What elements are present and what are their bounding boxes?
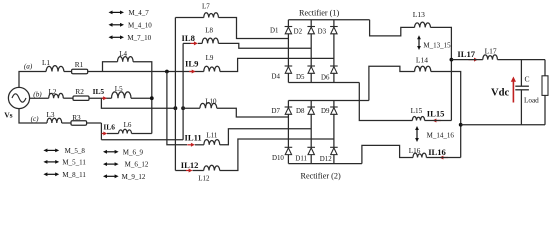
AC source Vs — [8, 87, 29, 108]
diode D6 — [330, 65, 338, 67]
wire L9 to rect1 leg3 — [220, 58, 334, 71]
coupling arrow M_5_11 — [46, 161, 56, 163]
inductor L2 — [49, 93, 64, 98]
coupling arrow M_4_10 — [112, 24, 122, 26]
svg-text:IL5: IL5 — [93, 87, 105, 96]
svg-text:L9: L9 — [206, 54, 214, 62]
wire rect2 minus to L16 — [362, 145, 413, 163]
wire L12 to rect2 leg3 — [220, 139, 334, 171]
svg-text:D2: D2 — [294, 28, 303, 35]
arrow IL9 — [189, 71, 193, 73]
diode D10 — [285, 146, 293, 148]
node V3 top dot — [174, 106, 178, 110]
coupling arrow M_13_15 — [418, 38, 420, 47]
svg-text:Load: Load — [524, 97, 539, 105]
wire phase b start — [30, 97, 49, 99]
svg-text:D4: D4 — [272, 73, 281, 80]
inductor L7 — [204, 13, 219, 18]
capacitor C — [520, 60, 522, 87]
wire L16 to node N — [426, 157, 460, 159]
wire phase a riser — [19, 72, 46, 88]
svg-text:L16: L16 — [409, 147, 421, 155]
svg-text:D8: D8 — [296, 108, 305, 115]
resistor R2 — [73, 96, 89, 100]
node V4 dot — [181, 106, 185, 110]
wire L10 to rect2 leg1 — [217, 108, 289, 117]
arrow IL17 — [469, 59, 475, 61]
wire L4 to V1 — [133, 62, 152, 134]
svg-text:L8: L8 — [205, 27, 213, 35]
wire phase c riser — [19, 109, 47, 123]
wire rect1 minus to L15 — [359, 83, 412, 121]
svg-text:L1: L1 — [42, 59, 50, 67]
wire L12 lead — [193, 170, 204, 172]
resistor R3 — [71, 121, 87, 125]
wire L7 to rect1 leg1 — [218, 18, 288, 39]
rect1 leg1 wire — [287, 20, 289, 83]
inductor L3 — [47, 118, 62, 123]
arrow IL8 — [191, 42, 195, 44]
svg-text:L5: L5 — [115, 85, 123, 93]
svg-text:R2: R2 — [75, 87, 84, 96]
rect2 leg2 wire — [310, 101, 312, 164]
svg-text:R1: R1 — [75, 60, 84, 69]
arrow IL5 — [102, 97, 105, 99]
arrow IL16 — [443, 157, 449, 159]
diode D8 — [307, 106, 315, 108]
rect2 bottom bus — [288, 163, 362, 165]
svg-text:L15: L15 — [411, 107, 423, 115]
svg-text:(c): (c) — [31, 115, 40, 123]
wire L8 to rect1 leg2 — [218, 43, 311, 48]
inductor L15 — [412, 116, 424, 120]
svg-text:L13: L13 — [413, 10, 425, 19]
resistor R1 — [72, 69, 88, 73]
wire L10 line — [183, 107, 200, 109]
wire phase c down — [100, 123, 102, 140]
inductor L13 — [415, 22, 431, 27]
rect2 top bus — [288, 100, 369, 102]
svg-text:M_8_11: M_8_11 — [62, 171, 86, 179]
svg-text:L6: L6 — [124, 121, 132, 129]
inductor L8 — [202, 38, 218, 43]
svg-text:M_5_8: M_5_8 — [65, 147, 86, 155]
wire top rail — [497, 59, 545, 61]
svg-text:M_13_15: M_13_15 — [423, 42, 451, 50]
svg-text:Rectifier (1): Rectifier (1) — [299, 9, 340, 18]
svg-text:Vdc: Vdc — [491, 87, 510, 98]
wire L6 to V1 — [132, 133, 152, 135]
wire phase c to corner — [87, 122, 102, 124]
svg-text:L7: L7 — [202, 2, 210, 10]
svg-text:D6: D6 — [321, 75, 330, 82]
diode D5 — [307, 65, 315, 67]
svg-text:IL8: IL8 — [182, 33, 196, 43]
svg-text:L2: L2 — [49, 88, 57, 96]
inductor L5 — [112, 92, 132, 98]
svg-text:Vs: Vs — [4, 110, 12, 119]
svg-text:M_4_7: M_4_7 — [129, 9, 150, 17]
wire L11 to rect2 leg2 — [220, 129, 312, 145]
rect1 leg2 wire — [310, 20, 312, 83]
coupling arrow M_6_12 — [106, 163, 116, 165]
svg-text:D3: D3 — [318, 28, 327, 35]
arrow IL12 — [186, 170, 190, 172]
inductor L1 — [46, 66, 64, 72]
inductor L11 — [204, 140, 220, 145]
svg-text:IL16: IL16 — [428, 147, 446, 157]
svg-text:M_14_16: M_14_16 — [427, 132, 455, 140]
rect1 leg3 wire — [333, 20, 335, 83]
coupling arrow M_8_11 — [46, 173, 56, 175]
node V1 dot — [150, 96, 154, 100]
wire node P to L17 — [451, 59, 482, 61]
svg-text:D9: D9 — [321, 108, 330, 115]
diode D12 — [330, 146, 338, 148]
svg-text:D10: D10 — [272, 155, 284, 162]
arrow IL6 — [102, 133, 105, 135]
svg-text:IL6: IL6 — [103, 123, 115, 132]
wire L4 tap — [103, 62, 118, 72]
diode D7 — [285, 106, 293, 108]
wire phase c to V4 — [101, 139, 183, 141]
diode D2 — [307, 26, 315, 28]
svg-text:IL15: IL15 — [427, 108, 445, 118]
svg-text:D7: D7 — [272, 108, 281, 115]
wire V3 vertical — [174, 18, 176, 171]
svg-text:D1: D1 — [270, 28, 279, 35]
diode D3 — [330, 26, 338, 28]
inductor L14 — [415, 66, 431, 71]
wire bottom rail — [461, 124, 545, 126]
svg-text:M_7_10: M_7_10 — [127, 34, 151, 42]
rect2 leg1 wire — [287, 101, 289, 164]
inductor L4 — [118, 57, 134, 62]
inductor L12 — [204, 165, 220, 170]
svg-text:D12: D12 — [320, 156, 332, 163]
svg-text:M_4_10: M_4_10 — [128, 21, 152, 29]
wire V2 to L11 — [167, 72, 187, 145]
wire c1 — [62, 122, 71, 124]
coupling arrow M_7_10 — [112, 36, 122, 38]
node P dot — [450, 58, 454, 62]
rect1 bottom bus — [288, 82, 359, 84]
svg-text:C: C — [525, 74, 530, 83]
coupling arrow M_9_12 — [106, 175, 116, 177]
svg-text:M_5_11: M_5_11 — [62, 159, 86, 167]
diode D1 — [285, 26, 293, 28]
diode D11 — [307, 146, 315, 148]
wire rect1 plus to L13 — [370, 20, 415, 36]
wire V4 vertical — [182, 43, 184, 139]
arrow IL11 — [187, 144, 192, 146]
diode D4 — [285, 65, 293, 67]
wire L5 out — [131, 97, 152, 99]
svg-text:IL12: IL12 — [181, 160, 199, 170]
svg-text:Rectifier (2): Rectifier (2) — [301, 171, 342, 180]
svg-text:L14: L14 — [416, 56, 428, 65]
coupling arrow M_14_16 — [416, 129, 418, 139]
node N dot — [459, 123, 463, 127]
wire L11 lead — [195, 144, 204, 146]
coupling arrow M_4_7 — [112, 11, 122, 13]
svg-text:D11: D11 — [295, 155, 307, 162]
load box — [542, 76, 548, 96]
diode D9 — [330, 106, 338, 108]
svg-text:M_6_9: M_6_9 — [123, 148, 144, 156]
svg-text:IL11: IL11 — [185, 132, 202, 142]
wire phase a to L9 — [88, 71, 204, 73]
svg-text:(b): (b) — [33, 90, 42, 98]
arrow IL15 — [436, 120, 442, 122]
svg-text:M_6_12: M_6_12 — [125, 161, 149, 169]
wire b1 — [63, 97, 73, 99]
wire rect2 plus to L14 — [369, 66, 415, 100]
wire L13 to node P — [431, 27, 452, 120]
inductor L16 — [413, 153, 426, 157]
inductor L9 — [204, 66, 220, 71]
svg-text:L11: L11 — [206, 132, 218, 140]
wire L14 to node N riser — [431, 72, 461, 158]
svg-text:L3: L3 — [47, 111, 55, 119]
rect1 top bus — [288, 19, 369, 21]
svg-text:IL17: IL17 — [457, 49, 475, 59]
wire right rail lower — [544, 95, 546, 124]
wire phase b tap down — [101, 98, 175, 108]
wire L12 line — [175, 170, 186, 172]
svg-text:M_9_12: M_9_12 — [122, 173, 146, 181]
wire right rail upper — [544, 60, 546, 76]
svg-text:D5: D5 — [296, 74, 305, 81]
wire L8 lead — [198, 42, 202, 44]
inductor L17 — [483, 55, 498, 60]
svg-text:R3: R3 — [72, 113, 81, 122]
svg-text:L12: L12 — [198, 174, 210, 182]
arrow Vdc — [512, 80, 514, 103]
wire L7 line — [175, 17, 203, 19]
svg-text:L4: L4 — [119, 50, 127, 58]
wire L15 to node P column — [425, 120, 452, 122]
wire L6 lead — [107, 133, 119, 135]
coupling arrow M_6_9 — [106, 151, 116, 153]
wire phase b to L5 — [89, 97, 112, 99]
inductor L10 — [200, 103, 217, 109]
coupling arrow M_5_8 — [46, 149, 56, 151]
node phase a dot — [165, 70, 169, 74]
svg-text:L10: L10 — [205, 98, 217, 106]
wire L8 line — [183, 42, 190, 44]
inductor L6 — [119, 129, 132, 133]
svg-text:L17: L17 — [485, 47, 497, 56]
rect2 leg3 wire — [333, 101, 335, 164]
wire a1 — [64, 71, 72, 73]
svg-text:IL9: IL9 — [185, 59, 198, 69]
svg-text:(a): (a) — [24, 62, 33, 70]
